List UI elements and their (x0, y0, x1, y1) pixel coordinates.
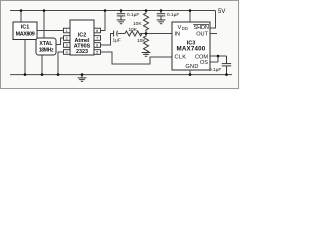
junction C1 / 5V rail (120, 9, 123, 12)
svg-text:OUT: OUT (196, 32, 208, 38)
svg-text:0.1µF: 0.1µF (209, 67, 221, 73)
IC2 pin 8 (94, 28, 101, 33)
IC2 pin 3 (64, 43, 71, 48)
svg-text:IC1: IC1 (21, 25, 29, 31)
IC2 pin 5 (94, 50, 101, 55)
svg-text:10K: 10K (129, 27, 138, 33)
capacitor C1 0.1uF bypass (117, 11, 125, 20)
junction VDD / 5V rail (189, 9, 192, 12)
ground main symbol (78, 75, 87, 82)
junction C2 / 5V rail (160, 9, 163, 12)
wire IC1 top pin (20, 11, 22, 23)
node IN (R1/R2/R3 junction) (145, 32, 148, 35)
junction IC1 / ground rail (24, 73, 27, 76)
wire VDD drop (189, 11, 191, 23)
svg-text:SHDN: SHDN (194, 25, 209, 31)
frame border (1, 1, 239, 89)
wire IC1 to IC2 pin1 (37, 30, 64, 32)
svg-text:3: 3 (66, 44, 68, 48)
svg-text:OS: OS (200, 60, 208, 66)
wire cap to resistor R2 (118, 33, 125, 35)
ground under R3 (142, 53, 151, 57)
svg-text:2: 2 (66, 37, 68, 41)
capacitor C2 0.1uF bypass (157, 11, 165, 20)
svg-text:CLK: CLK (175, 54, 187, 60)
wire XTAL bottom (41, 55, 43, 75)
wire pin4 to ground rail (58, 52, 64, 75)
resistor R2 10K series (125, 31, 142, 36)
svg-text:5V: 5V (218, 9, 225, 15)
op IC2 AT90S2323 body (70, 20, 94, 55)
svg-text:7: 7 (96, 37, 98, 41)
IC2 pin 2 (64, 36, 71, 41)
svg-text:0.1µF: 0.1µF (167, 12, 179, 18)
IC1 MAX809 (13, 22, 37, 40)
IC2 pin 7 (94, 36, 101, 41)
svg-text:IN: IN (175, 32, 181, 38)
wire OS (210, 61, 218, 63)
svg-text:GND: GND (185, 64, 198, 70)
junction IC1 top / 5V rail (20, 9, 23, 12)
svg-text:10K: 10K (137, 38, 146, 44)
wire XTAL top feed (43, 11, 45, 39)
resistor R1 10K pullup (144, 11, 149, 34)
svg-text:0.1µF: 0.1µF (127, 12, 139, 18)
junction IC3 GND / ground rail (189, 73, 192, 76)
svg-text:XTAL: XTAL (39, 41, 53, 47)
junction IC2 pin8 / 5V rail (104, 9, 107, 12)
wire pin8 to 5V rail (101, 11, 106, 31)
junction C4 / ground rail (225, 73, 228, 76)
ground under C1 (117, 20, 126, 24)
junction IC2 pin4 / ground rail (57, 73, 60, 76)
svg-text:4: 4 (66, 51, 68, 55)
wire IC1 bottom pin (24, 40, 26, 75)
junction COM/OS tie (217, 55, 220, 58)
IC2 pin 4 (64, 50, 71, 55)
svg-text:1µF: 1µF (113, 38, 121, 44)
svg-text:DD: DD (182, 26, 188, 31)
IC2 pin 1 (64, 28, 71, 33)
wire ground bottom rail (10, 74, 232, 76)
wire COM (210, 55, 227, 57)
svg-text:18MHz: 18MHz (39, 47, 54, 53)
capacitor C4 0.1uF on COM/OS (222, 56, 231, 75)
capacitor C3 1uF input coupling (114, 31, 118, 37)
svg-text:1: 1 (66, 29, 68, 33)
svg-text:MAX809: MAX809 (16, 32, 35, 38)
junction XTAL / ground rail (41, 73, 44, 76)
svg-text:2323: 2323 (76, 49, 88, 55)
junction XTAL feed / 5V rail (43, 9, 46, 12)
IC2 pin 6 (94, 43, 101, 48)
ground under C2 (157, 20, 166, 24)
wire 5V riser to SHDN (210, 11, 216, 29)
wire R2 to IN node (140, 33, 172, 35)
wire GND drop (189, 70, 191, 75)
svg-text:MAX7400: MAX7400 (177, 45, 206, 52)
wire pin5 to CLK (101, 52, 173, 64)
wire pin6 to input cap (101, 34, 114, 46)
wire OUT stub (210, 33, 217, 35)
junction ground symbol / ground rail (81, 73, 84, 76)
XTAL 18MHz (36, 38, 56, 55)
svg-text:5: 5 (96, 51, 98, 55)
resistor R3 10K pulldown (144, 34, 149, 53)
svg-text:10K: 10K (133, 21, 142, 27)
svg-text:8: 8 (96, 29, 98, 33)
wire 5V top rail (10, 10, 216, 12)
junction R1 / 5V rail (145, 9, 148, 12)
IC3 MAX7400 (172, 22, 210, 70)
svg-text:6: 6 (96, 44, 98, 48)
wire XTAL out to pin2 (56, 38, 64, 45)
wire COM-OS link (217, 56, 219, 62)
